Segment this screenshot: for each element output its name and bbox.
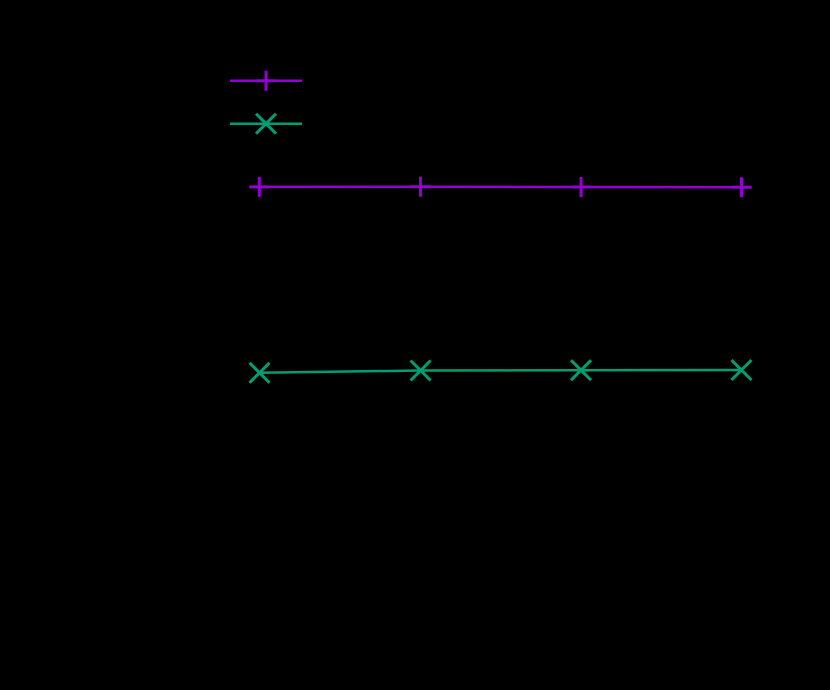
data line series 2 (green) [260,370,742,373]
legend marker + series 1 [256,71,276,91]
legend marker x series 2 [256,114,276,134]
legend sample line series 2 (green) [230,122,302,125]
legend sample line series 1 (violet) [230,79,302,82]
data line series 1 (violet) [259,185,741,188]
markers + series 1 [249,177,751,198]
markers x series 2 [250,360,752,383]
